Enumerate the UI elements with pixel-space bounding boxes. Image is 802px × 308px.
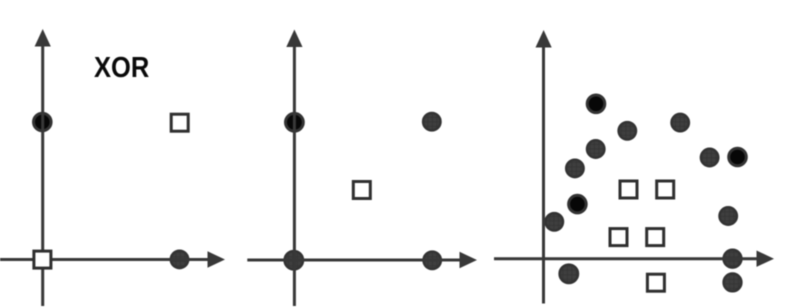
svg-text:XOR: XOR (94, 50, 150, 83)
